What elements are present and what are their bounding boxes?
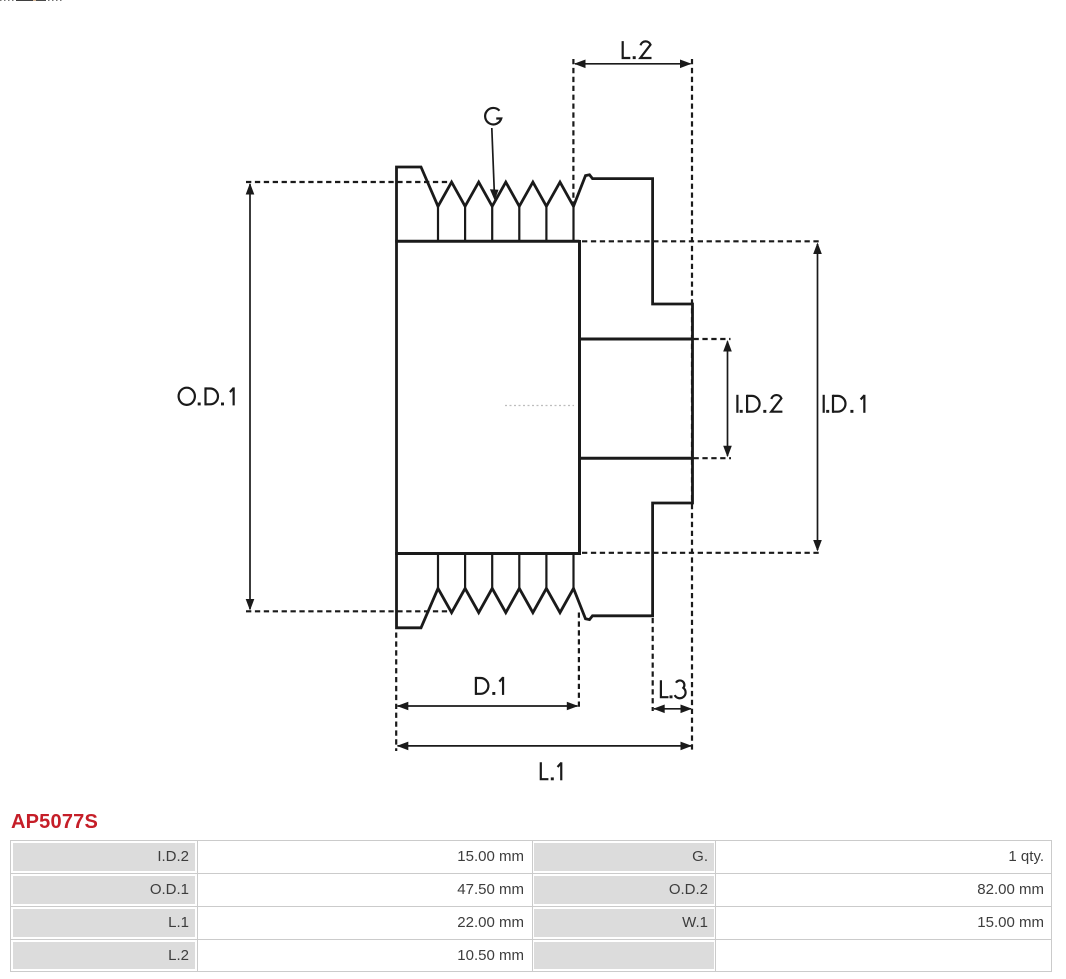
row 4 texts [13, 942, 189, 970]
I.D.2 bottom extension [694, 457, 732, 459]
pulley outer profile (cross-section outline) [397, 167, 693, 628]
D.1 dimension line [398, 705, 578, 707]
spec table [10, 840, 1052, 972]
gray label cells column 1 [13, 843, 195, 871]
L.3 dimension line [654, 708, 691, 710]
rim bottom baseline [395, 552, 579, 555]
faint centerline inside body [505, 405, 574, 407]
groove stems bottom [438, 554, 574, 589]
arrowheads [246, 60, 822, 751]
bore I.D.2 top line [580, 338, 693, 341]
gray label cells column 3 [534, 843, 714, 871]
L.2 / L.3 / L.1 right extension [691, 59, 693, 751]
O.D.1 bottom extension [246, 610, 451, 612]
top-left cropped artifact strip [0, 0, 62, 1]
I.D.1 arrowheads [813, 243, 822, 255]
G leader arrowhead [490, 189, 499, 200]
L.2 dimension line [575, 63, 691, 65]
I.D.1 dimension line [817, 244, 819, 550]
row 1 texts [13, 843, 189, 871]
L.3 left extension [652, 618, 654, 711]
L.2 arrowheads [574, 60, 586, 69]
part number heading [11, 811, 98, 834]
D.1 right extension [578, 613, 580, 708]
dimension labels (drawn as geometric glyph strokes) [179, 41, 865, 780]
body right edge [578, 240, 581, 555]
row 3 texts [13, 909, 189, 937]
dashed extension lines [246, 59, 821, 751]
I.D.2 dimension line [727, 342, 729, 456]
G leader line [492, 128, 495, 192]
grid verticals [197, 841, 198, 971]
L.3 arrowheads [653, 705, 665, 714]
D.1 arrowheads [397, 702, 409, 711]
grid horizontals [11, 873, 1051, 874]
L.1 arrowheads [397, 742, 409, 751]
O.D.1 arrowheads [246, 183, 255, 195]
D.1 / L.1 left extension [395, 633, 397, 752]
O.D.1 top extension [246, 181, 452, 183]
row 2 texts [13, 876, 189, 904]
dimension lines [250, 64, 818, 746]
L.1 dimension line [398, 745, 692, 747]
L.2 left extension [572, 59, 574, 204]
O.D.1 dimension line [249, 184, 251, 609]
I.D.2 top extension [694, 338, 731, 340]
I.D.1 bottom extension [582, 552, 821, 554]
rim top baseline [395, 240, 579, 243]
I.D.2 arrowheads [723, 340, 732, 352]
bore I.D.2 bottom line [580, 457, 693, 460]
groove stems top [438, 206, 574, 241]
I.D.1 top extension [582, 240, 821, 242]
